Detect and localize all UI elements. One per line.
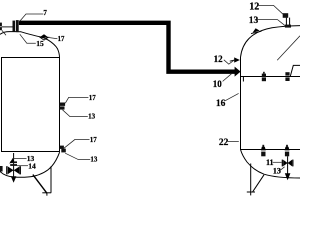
svg-text:14: 14 [28, 161, 36, 170]
left tank leg vertical [50, 166, 52, 193]
svg-text:16: 16 [216, 99, 226, 109]
svg-text:13: 13 [88, 112, 96, 120]
right tank bottom tangent line [240, 149, 300, 151]
drain butterfly valve left triangle [8, 167, 14, 174]
svg-text:22: 22 [219, 138, 229, 148]
left tank bottom dome [0, 152, 60, 177]
top nozzle on right tank dome [285, 18, 287, 27]
diamond vent fitting on left tank dome [40, 34, 48, 37]
leader 11 [273, 161, 282, 163]
bottom drain pipe of right tank [287, 156, 289, 173]
box fitting at right edge on internal pipe [290, 65, 300, 76]
left tank leg diagonal [33, 175, 47, 194]
top flange of left tank (outlet nozzle) [13, 21, 16, 32]
svg-text:12: 12 [214, 54, 224, 64]
leader 12 mid [224, 60, 234, 64]
nozzle on left tank right edge (middle) [60, 103, 66, 106]
right tank top dome [241, 26, 301, 58]
vent triangle fitting on right tank dome [253, 28, 260, 33]
spool fitting 2 on internal pipe [285, 72, 289, 75]
left tank bottom tangent line [1, 151, 60, 153]
svg-text:13: 13 [273, 167, 281, 176]
leader 16 [225, 93, 239, 100]
leader 10 [223, 74, 232, 82]
stub on internal pipe [242, 77, 244, 82]
valve handle block at image edge [0, 166, 3, 172]
leader 17 top [49, 38, 58, 39]
fitting on right tank left edge (labelled 12) [230, 60, 235, 61]
leader 17 bottom [64, 139, 90, 148]
bottom valve of right tank [283, 160, 287, 166]
leader 13 bottom-right [280, 167, 285, 171]
drain butterfly valve right triangle [14, 167, 20, 174]
svg-text:13: 13 [249, 16, 259, 26]
leader 22 [228, 141, 239, 143]
left tank leg foot [42, 192, 51, 194]
svg-text:10: 10 [213, 79, 223, 89]
pipe end arrow into right tank [235, 67, 241, 77]
svg-text:15: 15 [36, 39, 44, 48]
right tank leg foot [247, 191, 255, 193]
leader 7 [19, 14, 43, 22]
right tank leg diagonal [253, 175, 264, 192]
svg-text:7: 7 [43, 9, 47, 17]
bottom nozzle 1 of right tank [262, 145, 264, 147]
leader 15 [20, 34, 36, 43]
right tank bottom dome [241, 150, 301, 179]
small valve at image left edge (top) [0, 23, 2, 27]
bottom drain assembly of left tank: drain pipe [13, 153, 15, 177]
leader 13 bottom-left [13, 157, 27, 159]
right tank leg vertical [250, 164, 252, 192]
drain down arrow [11, 176, 17, 183]
leader 13 top-right [257, 20, 285, 26]
thick pipe from left tank to right tank [19, 23, 235, 72]
leader 13 bottom [65, 153, 90, 159]
leader 12 top-right [259, 5, 283, 14]
drain cross flange [10, 161, 17, 163]
svg-text:13: 13 [90, 156, 98, 164]
spool fitting 1 on internal pipe [262, 74, 266, 77]
leader 13 middle [63, 110, 88, 117]
leader 1 (label cut off at edge) [277, 36, 300, 60]
leader 17 middle [65, 97, 88, 103]
right tank shell left edge [240, 57, 242, 150]
right tank internal pipe line [241, 76, 300, 78]
svg-text:17: 17 [58, 36, 65, 43]
nozzle at left tank bottom right corner [60, 146, 64, 149]
arrowhead of leader 13 bottom-left [9, 158, 14, 164]
left tank top dome [0, 32, 60, 58]
svg-text:12: 12 [249, 1, 259, 12]
line from edge valve to flange [2, 26, 13, 28]
left tank top tangent line [1, 57, 60, 59]
svg-text:17: 17 [90, 136, 98, 144]
left tank shell left edge [1, 58, 3, 152]
valve end flanges [6, 166, 8, 174]
bottom nozzle 2 of right tank [286, 145, 288, 147]
leader 14 bottom-left [17, 165, 28, 167]
left tank shell right edge [59, 57, 61, 152]
svg-text:17: 17 [89, 94, 97, 102]
short diagonal below edge valve [2, 30, 6, 35]
right drain down arrow [285, 173, 291, 180]
